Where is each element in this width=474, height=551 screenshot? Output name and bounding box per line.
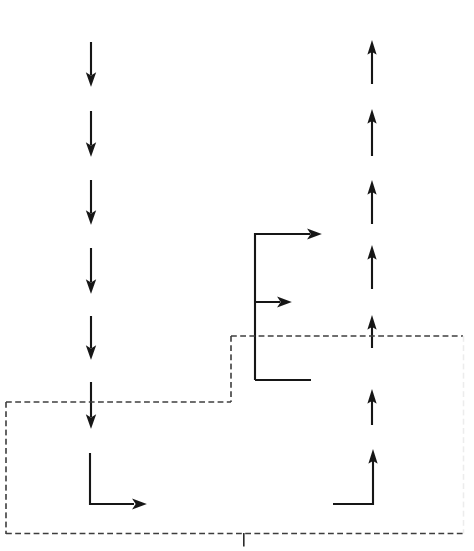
- branch arrow middle: [255, 297, 291, 307]
- down arrow 5: [86, 316, 95, 359]
- down arrow 1: [86, 42, 95, 86]
- bent arrow bottom-left: [90, 453, 146, 509]
- up arrow 4: [368, 246, 376, 289]
- up arrow 2: [368, 110, 376, 156]
- branch bottom connector: [255, 379, 311, 381]
- down arrow 3: [86, 180, 95, 224]
- down arrow 6: [86, 382, 95, 428]
- down arrow 4: [86, 248, 95, 293]
- dashed boundary top-right horizontal: [231, 335, 463, 337]
- bent arrow bottom-right: [333, 450, 377, 504]
- branch bracket vertical: [254, 233, 256, 380]
- up arrow 5: [368, 316, 376, 348]
- dashed boundary top-left horizontal: [6, 401, 231, 403]
- down arrow 2: [86, 111, 95, 156]
- dashed boundary left vertical: [5, 402, 7, 534]
- up arrow 3: [368, 181, 376, 224]
- branch arrow top: [255, 229, 321, 239]
- dashed boundary step vertical: [230, 336, 232, 402]
- dashed boundary bottom horizontal: [6, 533, 463, 535]
- up arrow 1: [368, 41, 376, 84]
- up arrow 6: [368, 390, 376, 425]
- dashed boundary right vertical (faint): [463, 336, 465, 534]
- bottom tick connector: [243, 533, 245, 547]
